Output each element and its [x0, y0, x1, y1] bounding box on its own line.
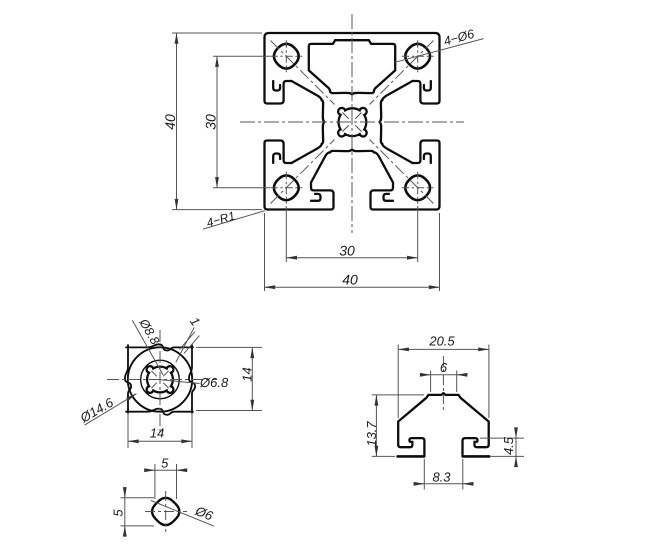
detail1 Ø14.6 leader [85, 394, 137, 425]
svg-text:40: 40 [162, 114, 178, 130]
diagonal centreline top-right [370, 41, 434, 105]
corner hole top-left (4-Ø6) [274, 44, 299, 69]
web wall bottom-right (bottom-slot side) [374, 152, 393, 182]
detail2 dim 5 left line [124, 489, 126, 498]
svg-text:40: 40 [342, 272, 358, 288]
detail1 middle circle Ø8.8 [141, 360, 180, 399]
dim 40 left extension lines [172, 33, 262, 210]
detail1 dim 14 right line [251, 347, 253, 410]
centre hole diagonal spokes [343, 113, 362, 132]
detail3 dim 8.3 line [415, 483, 425, 485]
T-slot lips: right slot upper lip [413, 38, 440, 104]
detail3 centreline [442, 356, 444, 413]
main centre hole (lobed) [338, 108, 367, 137]
main horizontal centreline [240, 121, 464, 123]
diagonal centreline bottom-right [370, 140, 434, 204]
detail1 break-line square [125, 344, 195, 415]
dim 30 left dimension line [216, 56, 218, 188]
label 4-Ø6 leader [395, 39, 484, 63]
T-slot lips: right slot lower lip [413, 141, 440, 207]
svg-text:5: 5 [161, 456, 169, 471]
detail1 Ø6.8 leader [161, 380, 200, 384]
dim 40 bottom dimension line [265, 286, 440, 288]
detail1 hole spokes [151, 371, 168, 388]
svg-text:20.5: 20.5 [428, 333, 455, 348]
dim 30 left extension lines [213, 56, 270, 188]
diagonal centreline bottom-left [271, 140, 335, 204]
detail3 dim 4.5 line [515, 429, 517, 438]
svg-text:14: 14 [240, 367, 255, 381]
detail3 dim 20.5 ext [398, 345, 489, 419]
detail1 dim 14 right ext [196, 347, 262, 410]
detail2 Ø6 leader [151, 501, 214, 527]
detail1 label 1 leader [176, 327, 195, 362]
svg-text:4.5: 4.5 [501, 436, 516, 455]
detail1 outer circle Ø14.6 [128, 347, 192, 411]
svg-text:6: 6 [440, 360, 448, 375]
detail3 dim 6 line [421, 374, 431, 376]
main top cavity outline [309, 40, 395, 92]
corner hole bottom-left centrelines [270, 172, 302, 204]
T-slot lips: bottom slot left lip [268, 183, 334, 210]
detail3 dim 20.5 line [398, 348, 489, 350]
detail3 dim 6 ext [431, 371, 457, 393]
label 4-R1 leader [203, 211, 265, 229]
detail3 outline left half [398, 393, 490, 456]
T-slot lips: left slot lower lip [265, 141, 292, 207]
detail1 Ø8.8 leader [132, 320, 163, 375]
main vertical centreline [351, 14, 353, 233]
detail2 hole Ø6 (wobbled circle) [152, 498, 179, 525]
web wall top-left [292, 81, 323, 101]
detail1 label 1 ticks [180, 332, 200, 354]
svg-text:30: 30 [339, 243, 355, 259]
core edge top [322, 92, 383, 153]
detail3 outline right half [444, 393, 489, 455]
detail2 dim 5 left ext [121, 498, 155, 526]
detail3 dim 13.7 line [375, 395, 377, 457]
dim 30 bottom extension lines [286, 206, 417, 262]
main profile outer top face and corner fillets [265, 33, 440, 210]
svg-text:13.7: 13.7 [364, 421, 379, 447]
dim 40 left dimension line [176, 33, 178, 210]
core edge right [380, 100, 383, 144]
T-slot lips: left slot upper lip [265, 38, 440, 210]
web wall bottom-left (slot side) [292, 144, 323, 164]
detail2 dim 5 top line [146, 469, 155, 471]
svg-text:8.3: 8.3 [432, 470, 451, 485]
detail3 dim 8.3 ext [424, 459, 463, 490]
corner hole bottom-right (4-Ø6) [405, 175, 430, 200]
diagonal centreline top-left [271, 41, 335, 105]
core edge left [322, 100, 325, 144]
detail2 dim 5 top ext [155, 464, 177, 499]
detail1 dim 14 bottom line [128, 440, 192, 442]
web wall bottom-right (slot side) [382, 144, 413, 164]
detail1 centrelines [107, 330, 216, 432]
detail3 dim 13.7 ext [372, 395, 424, 457]
dim 40 bottom extension lines [265, 213, 440, 291]
detail2 centrelines [145, 491, 187, 532]
web wall bottom-left (bottom-slot side) [311, 152, 330, 182]
corner hole top-left centrelines [270, 40, 302, 72]
svg-text:Ø6.8: Ø6.8 [199, 375, 229, 390]
detail3 dim 4.5 ext [480, 438, 524, 456]
T-slot lips: bottom slot right lip [371, 183, 437, 210]
svg-text:30: 30 [203, 114, 219, 130]
core edge bottom [330, 150, 374, 153]
detail1 dim 14 bottom ext [128, 413, 192, 448]
corner hole top-right (4-Ø6) [405, 44, 430, 69]
corner hole bottom-left (4-Ø6) [274, 175, 299, 200]
corner hole top-right centrelines [402, 40, 434, 72]
web wall top-right [382, 81, 413, 101]
svg-text:5: 5 [111, 509, 126, 517]
svg-text:14: 14 [150, 426, 164, 441]
dim 30 bottom dimension line [286, 257, 417, 259]
corner hole bottom-right centrelines [402, 172, 434, 204]
detail1 lobed hole Ø6.8 [147, 366, 174, 393]
